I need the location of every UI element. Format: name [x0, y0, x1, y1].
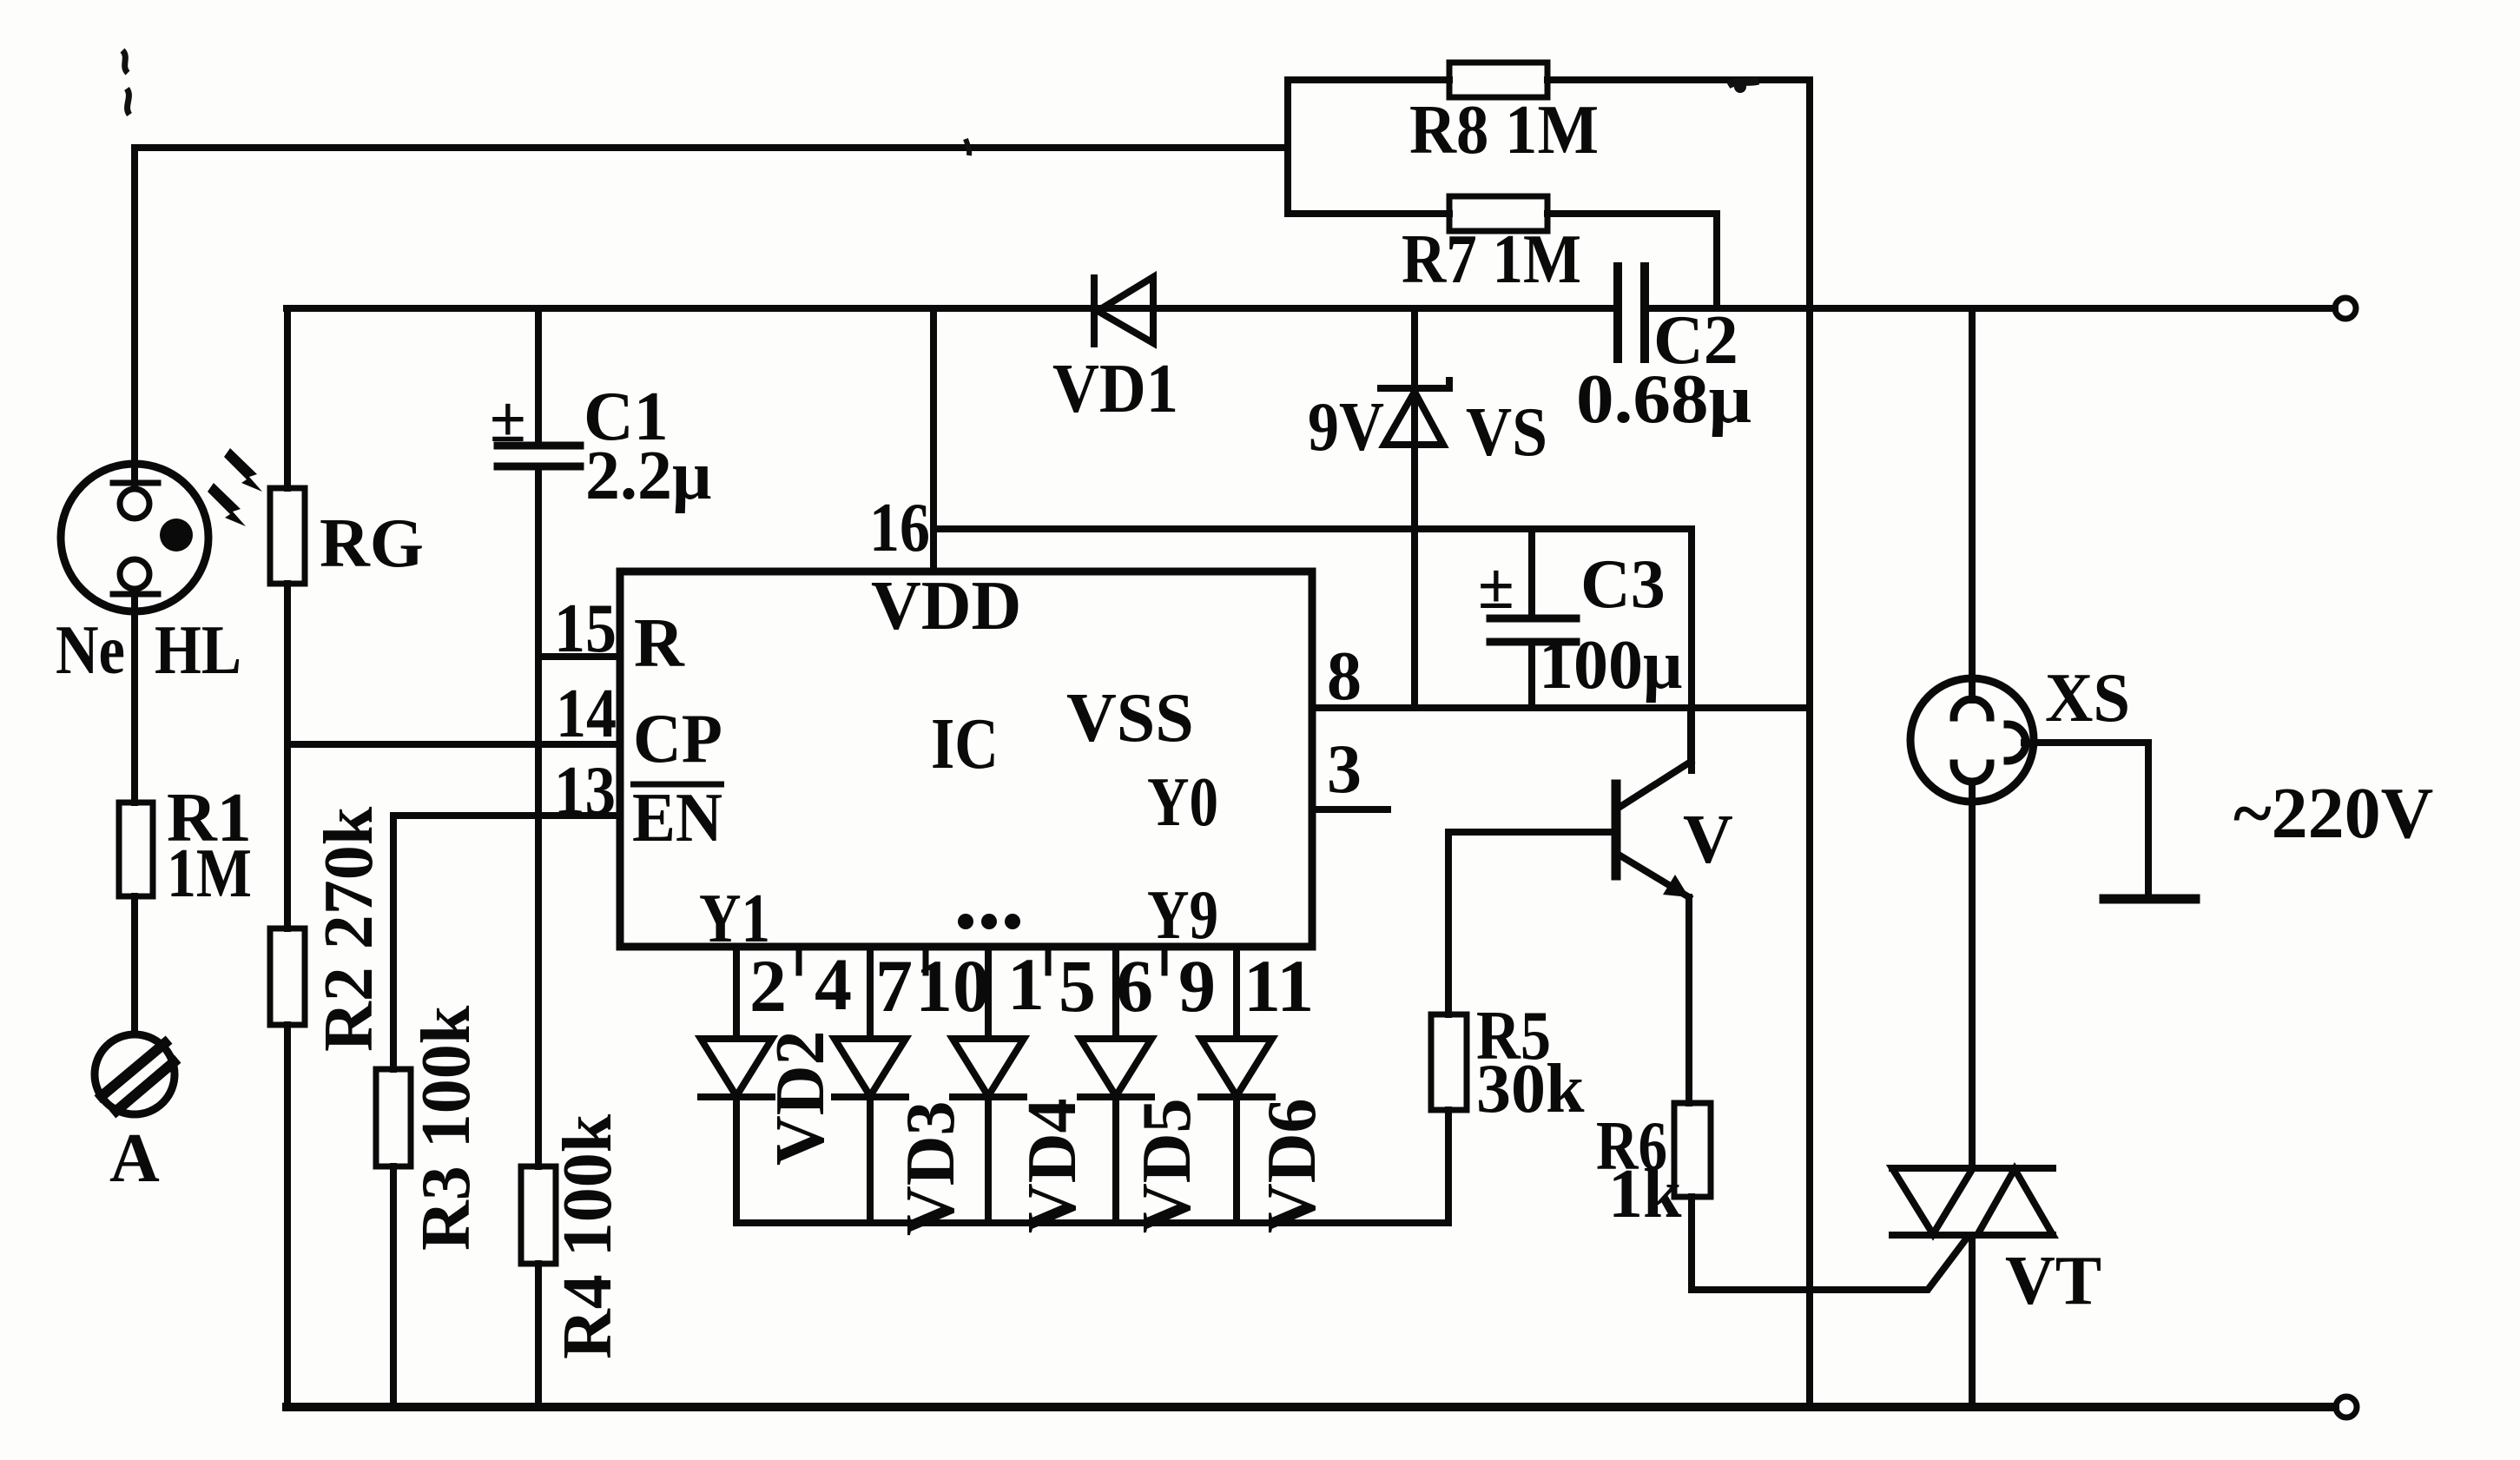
wire emitter to R6 [1685, 897, 1692, 1103]
svg-text:30k: 30k [1476, 1051, 1585, 1127]
svg-text:VS: VS [1466, 394, 1547, 471]
wire XS right to ground [2024, 743, 2148, 899]
svg-text:R2 270k: R2 270k [311, 806, 387, 1052]
photoresistor RG [270, 488, 305, 584]
svg-text:14: 14 [556, 676, 617, 752]
wire triac to bottom bus [1969, 1235, 1976, 1407]
wire tall right vertical [1806, 80, 1813, 1407]
pin tick 7/10 [923, 947, 929, 973]
svg-text:EN: EN [632, 780, 722, 856]
terminal A [95, 1034, 175, 1114]
ground [2104, 895, 2195, 904]
bus mid 355 left segment [287, 305, 1618, 312]
resistor R4 [521, 1166, 556, 1264]
svg-text:VD4: VD4 [1014, 1098, 1091, 1233]
svg-text:VD2: VD2 [762, 1030, 839, 1166]
pin tick 6/9 [1162, 947, 1168, 973]
resistor R8 loop [1288, 80, 1449, 214]
svg-text:16: 16 [869, 490, 930, 566]
svg-text:1k: 1k [1608, 1156, 1682, 1232]
svg-text:0.68μ: 0.68μ [1576, 361, 1751, 438]
wire collector riser [1688, 529, 1695, 770]
svg-text:VD5: VD5 [1129, 1098, 1205, 1233]
diode VD6 [1201, 947, 1272, 1223]
diode VD5 [1080, 947, 1151, 1223]
svg-text:±: ± [1478, 550, 1514, 623]
wire VDD rail 609 [933, 525, 1692, 532]
resistor R2 [270, 928, 305, 1025]
svg-text:7: 7 [875, 944, 913, 1027]
pin tick 2/4 [796, 947, 802, 973]
terminal top right [2335, 298, 2356, 319]
terminal bottom right [2336, 1397, 2357, 1417]
svg-text:13: 13 [554, 753, 616, 829]
svg-text:9V: 9V [1308, 389, 1384, 466]
scan speckles (decorative) [122, 50, 1758, 155]
arrows light onto RG [208, 448, 262, 526]
resistor R5 [1445, 832, 1452, 1014]
svg-text:VSS: VSS [1066, 680, 1194, 756]
zener VS [1381, 308, 1449, 708]
wire XS bottom [1969, 784, 1976, 1168]
svg-text:~220V: ~220V [2233, 773, 2433, 854]
svg-text:9: 9 [1178, 944, 1216, 1027]
svg-text:4: 4 [815, 942, 852, 1026]
bottom bus [287, 1403, 2335, 1411]
overline EN [630, 782, 724, 788]
resistor R3 [376, 1069, 411, 1166]
svg-text:5: 5 [1059, 944, 1096, 1027]
wire R4 to bottom bus [535, 1264, 542, 1407]
svg-text:R8 1M: R8 1M [1409, 92, 1599, 168]
diode VD1 [1094, 277, 1153, 344]
svg-text:2: 2 [749, 944, 787, 1027]
svg-text:VDD: VDD [871, 568, 1021, 644]
capacitor C2 [1618, 267, 1645, 359]
wire R1 to A [131, 896, 138, 1034]
svg-text:100μ: 100μ [1539, 627, 1682, 704]
wire VSS pin8 bus [1312, 704, 1808, 711]
pin tick 1/5 [1046, 947, 1052, 973]
svg-text:1M: 1M [167, 836, 252, 912]
diode VD4 [953, 947, 1024, 1223]
svg-text:±: ± [490, 383, 526, 456]
capacitor C1 top lead [535, 308, 542, 446]
wire CP [287, 741, 620, 748]
svg-text:15: 15 [554, 591, 617, 667]
wire diode bus [736, 1219, 1448, 1226]
wire XS drop [1969, 308, 1976, 700]
wire R3 to bottom bus [390, 1166, 397, 1407]
diode VD3 [835, 947, 906, 1223]
wire pin16 VDD drop [930, 308, 937, 571]
svg-text:VD3: VD3 [893, 1100, 969, 1236]
wire HL top lead [131, 148, 138, 483]
svg-text:R: R [634, 605, 685, 682]
triac VT [1892, 1168, 2053, 1235]
capacitor C3 [1490, 529, 1576, 708]
diode VD2 [701, 947, 772, 1223]
svg-text:VT: VT [2005, 1243, 2101, 1319]
svg-text:8: 8 [1327, 638, 1362, 715]
svg-text:RG: RG [320, 505, 424, 582]
wire C1 down through R4 line [535, 466, 542, 1166]
resistor R6 [1674, 1103, 1711, 1197]
svg-text:R7 1M: R7 1M [1402, 221, 1581, 298]
wire RG to CP node [284, 584, 291, 928]
svg-text:3: 3 [1327, 731, 1362, 808]
svg-text:HL: HL [155, 612, 241, 689]
svg-text:11: 11 [1244, 944, 1314, 1027]
capacitor C1 [498, 446, 580, 466]
wire RG branch upper [284, 308, 291, 488]
transistor V [1448, 708, 1691, 897]
svg-text:XS: XS [2045, 660, 2130, 737]
stub Y0 pin3 [1312, 806, 1388, 813]
svg-text:6: 6 [1116, 944, 1153, 1027]
svg-text:2.2μ: 2.2μ [585, 438, 711, 514]
resistor R7 [1288, 210, 1449, 217]
svg-text:VD6: VD6 [1254, 1098, 1330, 1233]
svg-text:Y0: Y0 [1147, 764, 1218, 841]
socket XS [1910, 678, 2034, 802]
svg-text:IC: IC [931, 704, 999, 784]
label dots [958, 914, 1020, 929]
wire pin15 R [538, 653, 620, 660]
svg-text:CP: CP [633, 701, 722, 777]
svg-text:A: A [109, 1120, 160, 1197]
svg-text:V: V [1683, 802, 1733, 878]
resistor R1 [119, 803, 153, 896]
svg-text:1: 1 [1007, 942, 1045, 1026]
svg-text:C3: C3 [1580, 546, 1666, 623]
svg-text:Y9: Y9 [1147, 877, 1218, 954]
svg-text:VD1: VD1 [1052, 351, 1178, 427]
bus mid 355 right segment [1645, 305, 2335, 312]
svg-text:Ne: Ne [56, 612, 125, 689]
svg-text:R4 100k: R4 100k [550, 1113, 626, 1359]
wire R2 to bottom bus [284, 1025, 291, 1407]
op-amp IC box [620, 571, 1312, 947]
wire R6 to gate [1692, 1197, 1968, 1290]
wire top bus [135, 144, 1288, 151]
wire HL to R1 [131, 594, 138, 803]
svg-text:R3 100k: R3 100k [408, 1005, 485, 1251]
svg-text:10: 10 [915, 944, 990, 1027]
neon lamp HL [61, 464, 208, 611]
wire EN [393, 816, 620, 1069]
